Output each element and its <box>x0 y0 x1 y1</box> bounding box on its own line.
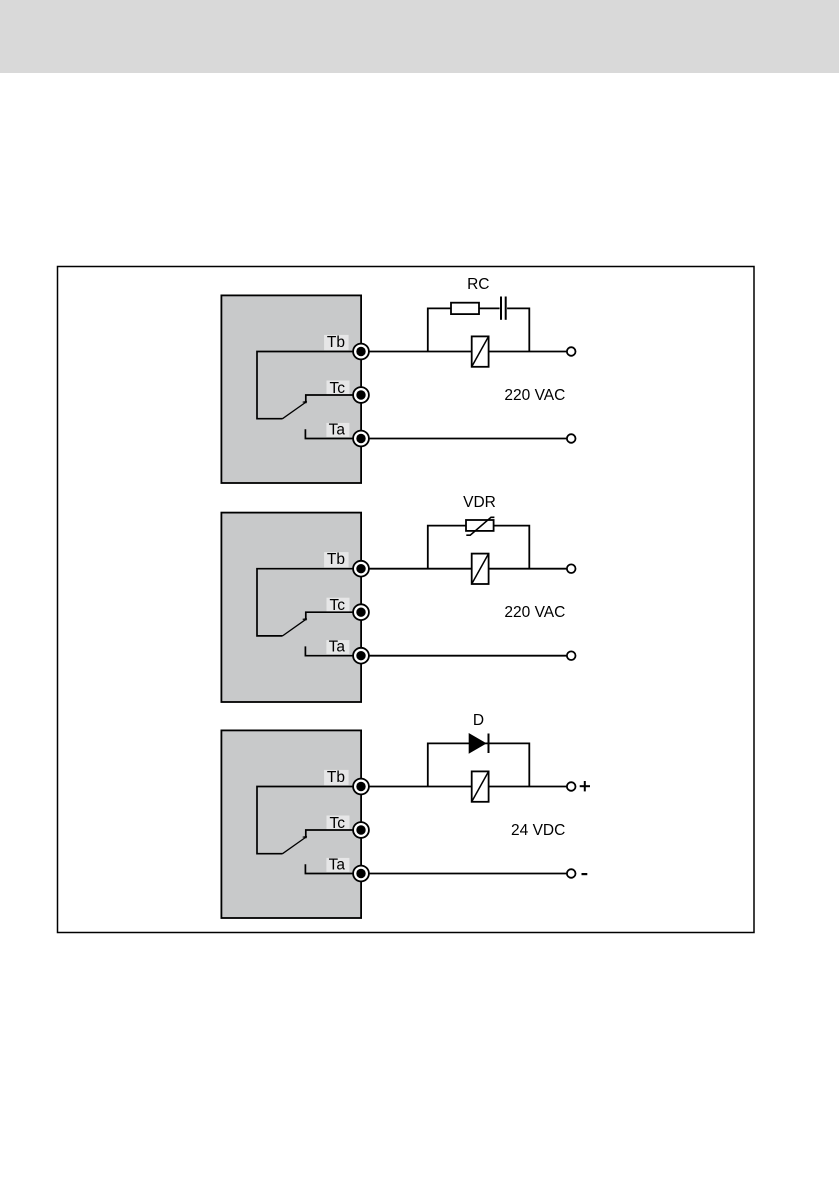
terminal Ta <box>353 866 369 882</box>
wire: suppression branch loop <box>428 743 530 786</box>
switch moving contact arm <box>283 837 307 854</box>
open terminal (bottom line) <box>567 434 576 443</box>
relay coil <box>472 771 489 801</box>
svg-text:Tb: Tb <box>327 551 345 568</box>
varistor VDR <box>466 517 494 535</box>
wire: Ta to external terminal <box>361 438 567 440</box>
svg-text:24 VDC: 24 VDC <box>511 822 565 839</box>
switch moving contact arm <box>283 619 307 636</box>
label halo patches <box>324 335 349 437</box>
relay module box (VDR circuit) <box>221 513 361 702</box>
svg-text:VDR: VDR <box>463 494 496 511</box>
svg-text:Tc: Tc <box>330 815 346 832</box>
wire: Ta to external terminal <box>361 873 567 875</box>
wire: suppression branch loop <box>428 526 530 569</box>
svg-text:Tb: Tb <box>327 769 345 786</box>
open terminal (top line) <box>567 347 576 356</box>
wire: Tc stub <box>306 830 361 838</box>
polarity + <box>580 781 590 791</box>
wire: Tb feed inside module <box>257 352 361 419</box>
wire: suppression branch loop <box>428 308 530 351</box>
svg-text:Ta: Ta <box>329 639 346 656</box>
svg-text:Ta: Ta <box>329 856 346 873</box>
svg-text:Tb: Tb <box>327 334 345 351</box>
wire: Tb to external terminal <box>361 786 567 788</box>
svg-text:Tc: Tc <box>330 597 346 614</box>
terminal Tb <box>353 344 369 360</box>
wire: Tb to external terminal <box>361 568 567 570</box>
relay module box (RC circuit) <box>221 295 361 483</box>
wire: Tc stub <box>306 612 361 620</box>
open terminal (top line) <box>567 564 576 573</box>
svg-text:Tc: Tc <box>330 380 346 397</box>
relay module box (D circuit) <box>221 730 361 918</box>
label halo patches <box>324 552 349 654</box>
wire: Tb feed inside module <box>257 569 361 636</box>
relay coil <box>472 336 489 366</box>
wire: Ta stub <box>305 864 361 873</box>
open terminal (bottom line) <box>567 869 576 878</box>
capacitor C (RC snubber) <box>500 297 508 320</box>
polarity - <box>582 873 588 875</box>
svg-text:220 VAC: 220 VAC <box>504 387 565 404</box>
label halo patches <box>324 770 349 872</box>
diode D <box>469 733 489 754</box>
wire: Ta to external terminal <box>361 655 567 657</box>
terminal Tc <box>353 822 369 838</box>
wire: Tc stub <box>306 395 361 403</box>
svg-text:Ta: Ta <box>329 421 346 438</box>
wire: Tb feed inside module <box>257 787 361 854</box>
terminal Tc <box>353 604 369 620</box>
open terminal (top line) <box>567 782 576 791</box>
wire: Ta stub <box>305 646 361 655</box>
terminal Ta <box>353 431 369 447</box>
terminal Tb <box>353 561 369 577</box>
resistor R (RC snubber) <box>451 303 479 314</box>
terminal Tc <box>353 387 369 403</box>
diagram frame <box>58 267 755 933</box>
switch moving contact arm <box>283 402 307 419</box>
relay coil <box>472 554 489 584</box>
wire: Ta stub <box>305 429 361 438</box>
wire: Tb to external terminal <box>361 351 567 353</box>
terminal Ta <box>353 648 369 664</box>
svg-text:220 VAC: 220 VAC <box>504 604 565 621</box>
terminal Tb <box>353 779 369 795</box>
svg-text:RC: RC <box>467 276 489 293</box>
page header bar <box>0 0 839 73</box>
svg-text:D: D <box>473 712 484 729</box>
open terminal (bottom line) <box>567 651 576 660</box>
